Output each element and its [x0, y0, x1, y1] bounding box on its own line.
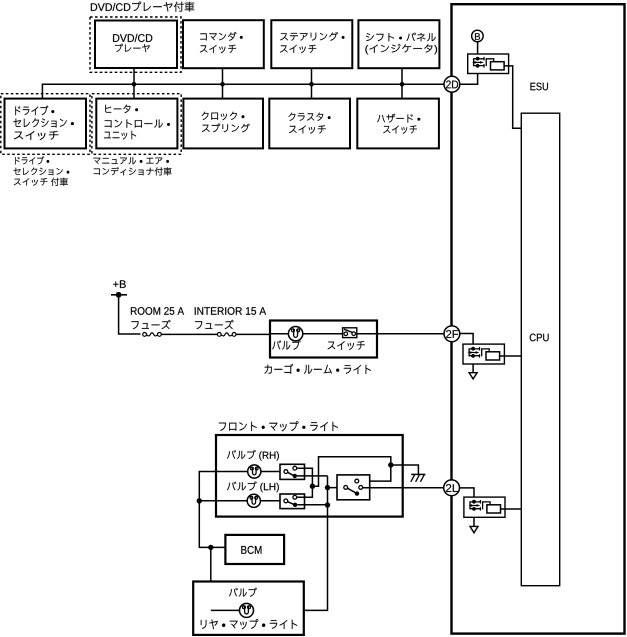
connector 2F — [444, 326, 460, 342]
node RH-LH join — [310, 484, 315, 489]
wire shift to hazard — [401, 68, 403, 98]
wire bulb RH left — [199, 472, 247, 548]
label bulb RH — [227, 450, 279, 461]
transistor driver Q1 — [474, 59, 484, 66]
label B — [475, 33, 480, 40]
text hazard — [377, 114, 420, 123]
wire bulb RH to switch — [261, 471, 280, 473]
label bulb rear — [229, 588, 257, 597]
text DVD/CD — [113, 34, 152, 42]
node bus-DVD — [132, 82, 137, 87]
text drive — [15, 105, 54, 115]
text switch2 — [280, 45, 316, 53]
text control — [105, 119, 170, 127]
box clock spring — [183, 99, 263, 149]
wire B to driver — [477, 41, 479, 54]
label front map light — [219, 421, 338, 431]
node switch common lower — [325, 502, 330, 507]
transistor driver Q3 — [470, 502, 480, 509]
text heater — [105, 105, 138, 114]
label switch cargo — [328, 341, 365, 350]
driver box 2F — [463, 344, 504, 364]
label rear map light — [201, 619, 297, 629]
label 2F — [446, 330, 458, 338]
power rail +B tick — [111, 294, 127, 296]
label INTERIOR 15 A — [195, 307, 266, 315]
text switch4 — [289, 125, 326, 133]
box cluster switch — [269, 99, 350, 149]
bulb RH — [248, 465, 261, 478]
label fuse1 — [131, 320, 170, 329]
ground arrow 2L — [470, 526, 478, 532]
transistor driver Q2 — [469, 349, 479, 356]
node switch common upper — [325, 485, 330, 490]
label CPU — [530, 334, 549, 342]
wire fuse1 to fuse2 — [162, 333, 218, 335]
sublabel conditioner equipped — [94, 167, 172, 175]
wire steering to cluster — [311, 68, 313, 98]
fuse ROOM 25A — [143, 333, 147, 337]
text switch3 — [14, 131, 58, 140]
node bus-shift — [400, 82, 405, 87]
wire driver 2L out to CPU — [501, 508, 522, 510]
bulb cargo — [288, 327, 302, 341]
wire RH top contact — [297, 468, 313, 497]
label ESU — [530, 83, 548, 91]
label 2D — [446, 80, 458, 88]
label +B — [113, 280, 126, 288]
wire join to loop — [312, 457, 390, 486]
CPU box — [521, 113, 559, 586]
rear map light box — [193, 582, 304, 635]
wire to ground — [391, 465, 419, 474]
switch cargo — [343, 328, 357, 338]
box steering switch — [271, 20, 352, 68]
node +B — [116, 292, 122, 298]
box commander switch — [183, 20, 264, 68]
label fuse2 — [195, 320, 234, 329]
wire bus left branch down — [41, 84, 43, 99]
switch door RH — [280, 464, 305, 479]
switch door LH — [280, 494, 305, 509]
text switch5 — [383, 125, 417, 133]
node bus-steering — [309, 82, 314, 87]
bulb rear — [240, 603, 254, 617]
node bulbs join — [197, 498, 202, 503]
wire driver out to CPU — [504, 66, 521, 128]
dashed option box drive selection — [1, 94, 90, 155]
text spring — [202, 124, 250, 133]
cargo room light box — [270, 321, 377, 358]
box DVD/CD player — [95, 21, 177, 69]
BCM box — [225, 535, 284, 564]
text indicator — [365, 44, 437, 55]
wire RH bottom contact — [297, 475, 328, 477]
text player — [115, 44, 150, 52]
wire driver 2F out to CPU — [500, 355, 522, 357]
node bus-commander — [220, 82, 225, 87]
label bulb LH — [227, 481, 279, 492]
box drive selection switch — [5, 99, 87, 149]
wire fuse2 to cargo box — [236, 333, 270, 335]
box hazard switch — [357, 99, 439, 149]
wire +B down — [119, 295, 141, 334]
text switch1 — [200, 45, 236, 53]
wire LH bottom contact — [297, 504, 327, 506]
text steering — [280, 32, 344, 41]
wire bulb LH to switch — [260, 500, 280, 502]
wire bulb LH left — [199, 500, 246, 502]
label cargo room light — [264, 364, 371, 374]
fuse INTERIOR 15A — [217, 333, 221, 337]
wire in cargo box — [270, 333, 444, 335]
wire commander to clock spring — [222, 68, 224, 98]
power node B circle — [472, 30, 484, 42]
ESU unit box — [452, 4, 625, 633]
text commander — [200, 32, 243, 41]
wire rear bulb left — [211, 609, 240, 611]
wire DVD to heater — [133, 68, 135, 99]
driver box 2L — [464, 497, 505, 517]
label 2L — [446, 484, 458, 492]
connector 2D — [444, 76, 460, 92]
label bulb cargo — [272, 340, 300, 350]
text shift panel — [366, 33, 436, 42]
text clock — [202, 112, 245, 121]
dashed option box heater control — [92, 94, 181, 155]
wire common to selector — [328, 487, 344, 489]
node ground tap — [388, 462, 393, 467]
driver box 2D — [468, 54, 509, 74]
wire BCM branch — [210, 547, 212, 610]
chassis ground — [411, 473, 425, 475]
connector 2L — [444, 480, 460, 496]
sublabel drive2 — [15, 156, 49, 164]
bus wire horizontal — [42, 83, 445, 85]
sublabel manual air — [93, 157, 168, 164]
wire driver through to 2D — [459, 73, 477, 84]
wire 2F to driver — [459, 334, 473, 373]
label ROOM 25 A — [131, 307, 184, 315]
front map light box — [216, 435, 403, 517]
text unit — [104, 131, 136, 140]
bulb LH — [247, 494, 260, 507]
sublabel switch equipped — [14, 178, 68, 186]
label BCM — [241, 546, 261, 554]
label DVD/CD player equipped — [91, 2, 194, 12]
dashed option box DVD/CD — [90, 17, 181, 72]
wire selector to 2L — [363, 487, 444, 489]
ground arrow 2F — [469, 373, 477, 379]
sublabel selection2 — [14, 168, 70, 176]
wire 2L to driver — [459, 488, 474, 526]
wire common vertical — [254, 476, 328, 611]
switch map 3pos — [337, 475, 370, 500]
node BCM tap — [208, 545, 213, 550]
text selection — [13, 118, 74, 127]
text cluster — [289, 113, 331, 121]
box shift panel — [358, 20, 439, 68]
box heater control unit — [96, 99, 177, 149]
